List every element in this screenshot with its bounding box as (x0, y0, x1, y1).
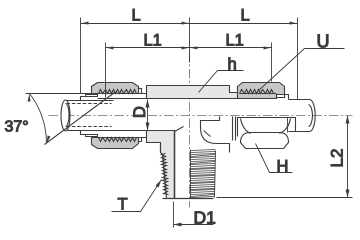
svg-text:D1: D1 (194, 208, 216, 228)
svg-text:h: h (228, 56, 237, 74)
right tube bottom edge (289, 131, 310, 133)
L2 dimension line (347, 116, 349, 198)
37 deg reference line (26, 93, 114, 95)
ext line L1 left (105, 43, 107, 98)
flare cone line (45, 93, 115, 145)
svg-text:T: T (118, 196, 128, 214)
ext line center (189, 18, 191, 63)
L2 ext line (217, 197, 353, 199)
fitting body section (top band) (147, 86, 277, 99)
dimension L1 left (106, 47, 272, 49)
branch vertical centerline (189, 53, 191, 208)
right tube end arc (310, 100, 316, 132)
left nut right step bottom (139, 138, 142, 142)
leader U (258, 49, 345, 92)
hex chamfer arc right (280, 119, 291, 134)
right nut thread zigzag (240, 90, 277, 94)
left nut collar bottom (81, 131, 98, 138)
dimension L left (81, 23, 190, 25)
leader H (256, 144, 293, 173)
ext line L left (80, 18, 82, 94)
hex chamfer arc left (241, 119, 251, 134)
elbow outline (201, 117, 230, 153)
fitting body section (lower-left + branch wall) (147, 131, 175, 199)
37 deg angle arc (30, 94, 47, 144)
svg-text:L1: L1 (226, 32, 244, 50)
D1 ext line (173, 202, 175, 228)
npt external thread crest lines (191, 150, 216, 198)
hex front face (241, 133, 289, 149)
hex face edge right (287, 118, 289, 133)
left tube end ellipse (61, 100, 70, 131)
left nut section bottom (92, 138, 139, 149)
left nut thread zigzag bottom (99, 138, 141, 142)
svg-text:L2: L2 (328, 149, 347, 168)
left tube end inner arc (66, 104, 70, 127)
ext line L right (297, 18, 299, 100)
svg-text:L: L (241, 7, 250, 25)
right tube top edge (289, 99, 310, 101)
dimension L1 right (190, 47, 198, 50)
svg-text:H: H (277, 158, 289, 176)
branch bore chamfer (175, 127, 184, 132)
svg-text:37°: 37° (5, 119, 29, 136)
branch bottom end face (163, 198, 214, 200)
leader T (112, 180, 162, 212)
svg-text:L1: L1 (144, 32, 162, 50)
svg-text:D: D (131, 106, 149, 118)
ext line L1 right (271, 43, 273, 82)
left nut right step top (139, 89, 142, 94)
bore bottom edge (66, 130, 175, 132)
branch thread profile zigzag (section side) (160, 143, 162, 153)
washer line 2 (235, 117, 237, 141)
leader h (199, 71, 244, 93)
npt thread right edge (215, 151, 216, 198)
left tube hidden bore lines (67, 104, 112, 127)
right nut counterbore notch (277, 95, 285, 98)
left nut collar top (81, 94, 98, 101)
left nut thread zigzag top (99, 90, 141, 94)
elbow fillet tick (204, 131, 211, 137)
right nut section (238, 83, 285, 99)
dimension D (147, 100, 149, 131)
svg-text:U: U (317, 32, 330, 52)
left nut section top (92, 83, 139, 94)
right nut washer step (285, 95, 289, 100)
branch bore line (174, 132, 176, 199)
D1 dimension line (174, 224, 214, 226)
hex nut H outline (238, 118, 296, 137)
horizontal run centerline (49, 115, 353, 117)
left tube outer top edge (66, 100, 114, 102)
right tube end inner arc (309, 105, 313, 127)
npt left boundary (190, 150, 192, 199)
svg-text:L: L (132, 7, 141, 25)
washer line 1 (232, 117, 234, 141)
dimension L right (190, 23, 298, 25)
bore top edge (98, 98, 277, 100)
